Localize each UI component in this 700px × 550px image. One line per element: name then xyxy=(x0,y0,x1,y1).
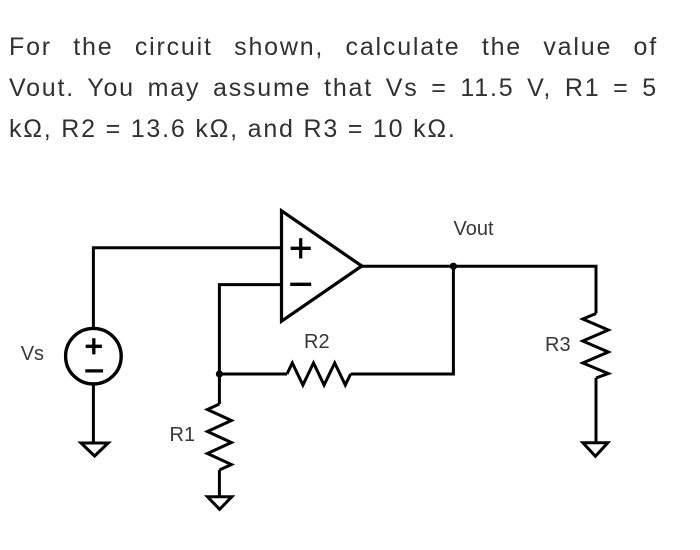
wire R1 bottom to ground xyxy=(218,470,221,497)
label Vs xyxy=(21,343,44,366)
ground below R1 xyxy=(208,497,232,510)
resistor R3 xyxy=(583,314,609,379)
label R3 xyxy=(545,334,571,357)
label R1 xyxy=(170,424,196,447)
wire node A up to op-amp - input xyxy=(219,285,281,374)
wire R2 left end to node A xyxy=(219,373,287,376)
label Vout xyxy=(454,218,494,241)
node Vout junction dot xyxy=(450,263,457,270)
wire Vs top to op-amp + input xyxy=(93,248,281,328)
wire Vout node down to R2 right end (feedback) xyxy=(351,266,454,374)
wire Vs bottom to ground xyxy=(92,384,95,443)
op-amp U1 xyxy=(282,211,362,321)
voltage source Vs xyxy=(66,328,122,384)
node A junction dot xyxy=(216,370,223,377)
ground below Vs xyxy=(81,443,108,456)
resistor R2 xyxy=(287,363,351,385)
label R2 xyxy=(304,331,330,354)
wire op-amp output to R3 top corner xyxy=(362,266,596,313)
ground below R3 xyxy=(583,443,608,457)
resistor R1 xyxy=(207,404,231,470)
wire node A down to R1 xyxy=(218,374,221,404)
wire R3 bottom to ground xyxy=(595,378,598,443)
